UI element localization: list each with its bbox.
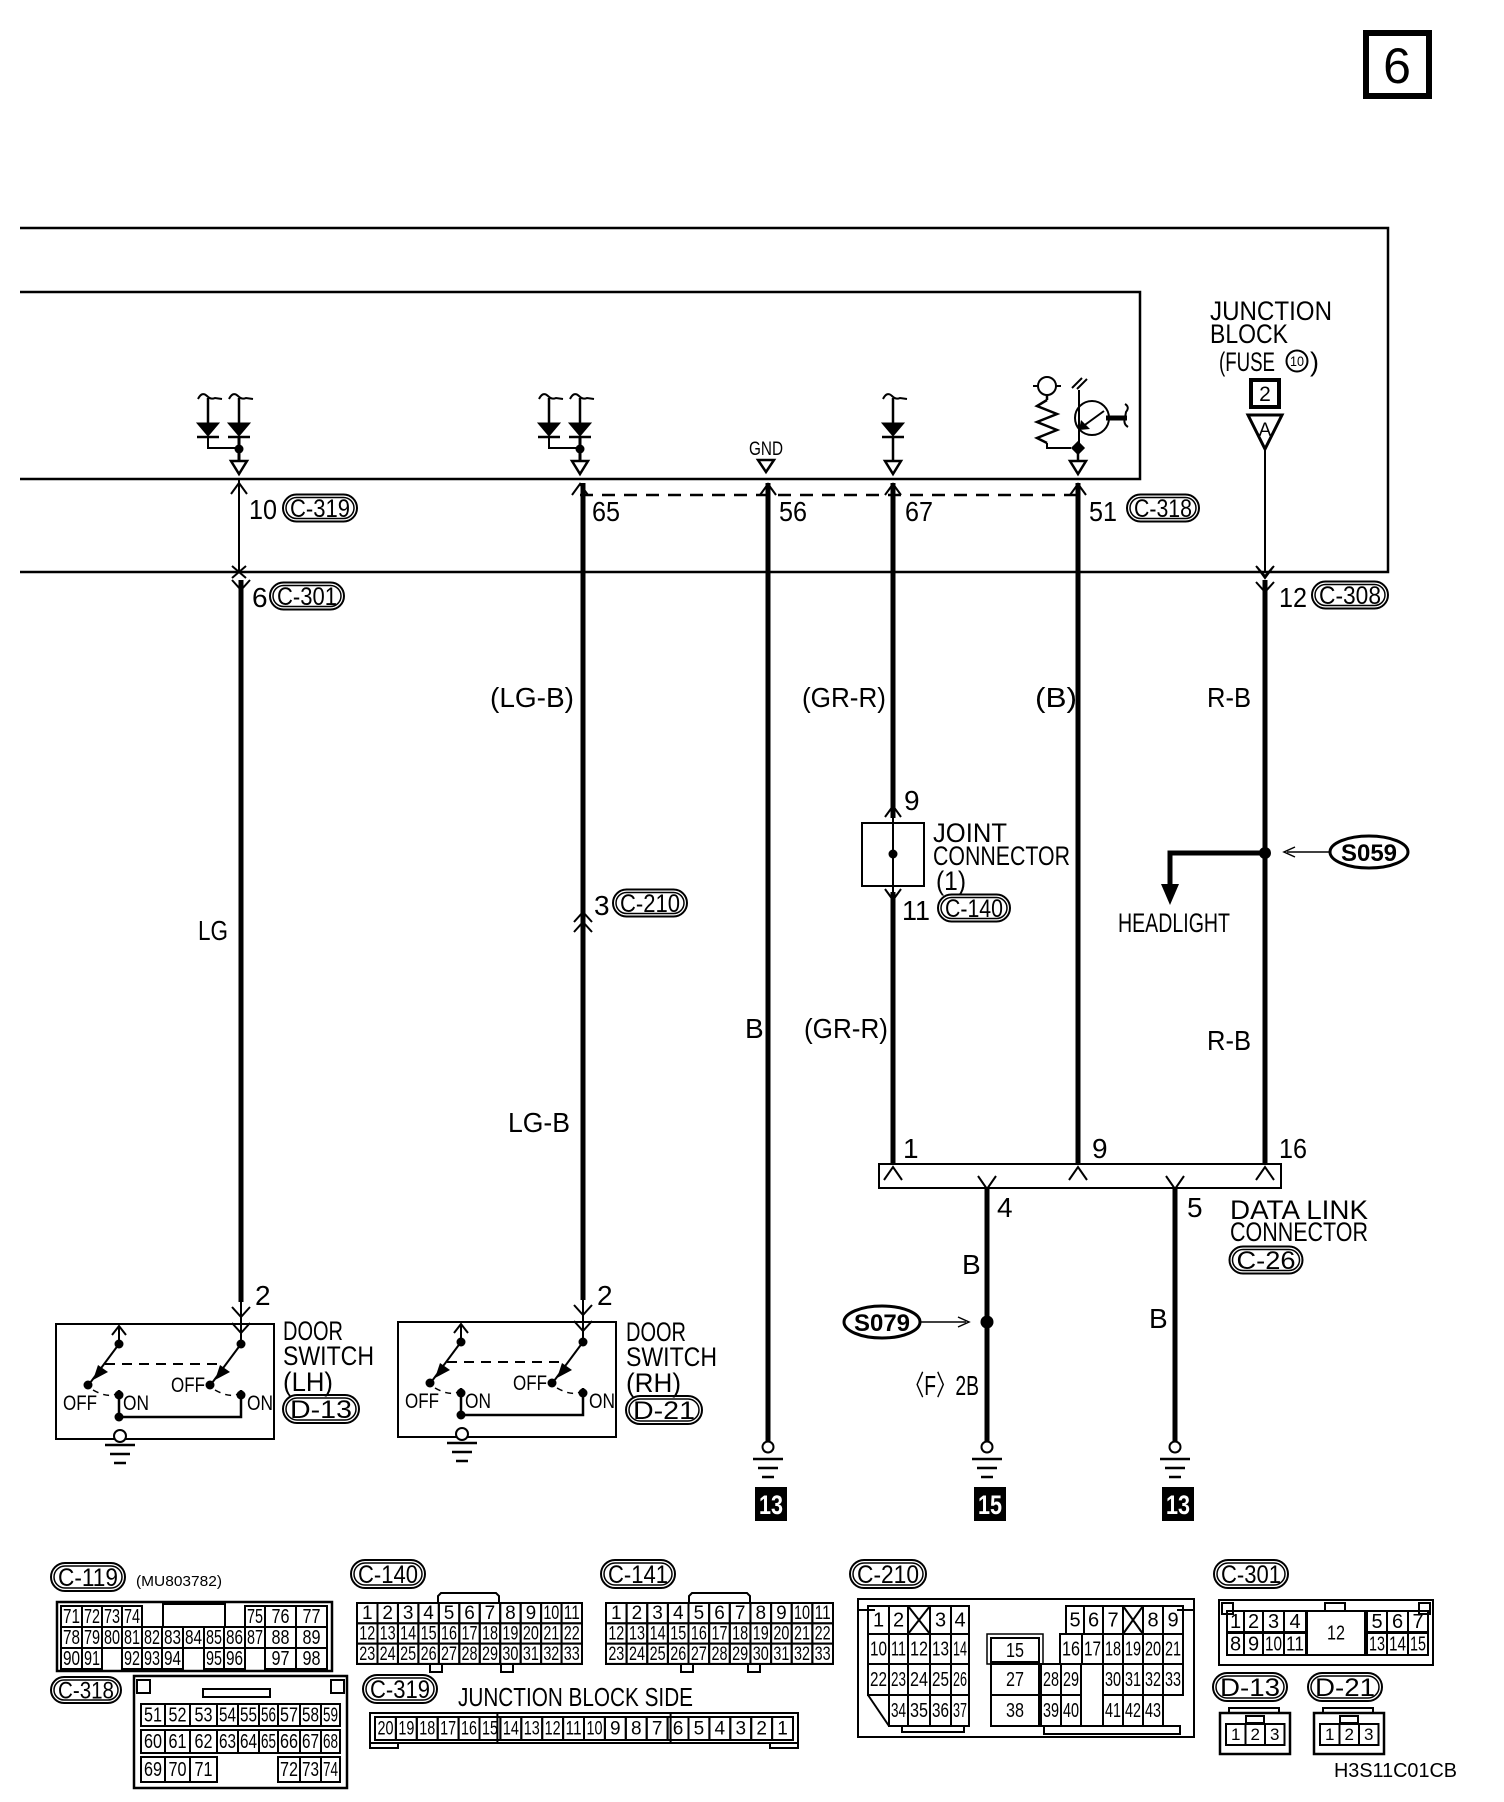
svg-text:87: 87 — [247, 1627, 263, 1649]
svg-text:2: 2 — [756, 1719, 767, 1740]
svg-text:14: 14 — [503, 1719, 519, 1740]
svg-text:9: 9 — [904, 785, 920, 816]
svg-text:C-319: C-319 — [290, 495, 350, 523]
svg-text:26: 26 — [953, 1669, 967, 1691]
connector C-319 strip — [370, 1713, 798, 1748]
svg-text:25: 25 — [650, 1644, 666, 1665]
svg-text:38: 38 — [1006, 1700, 1024, 1722]
svg-text:OFF: OFF — [63, 1392, 97, 1415]
svg-text:12: 12 — [1279, 582, 1307, 613]
transistor Q1 — [1072, 378, 1128, 448]
svg-text:23: 23 — [608, 1644, 624, 1665]
svg-text:2: 2 — [893, 1609, 904, 1631]
svg-text:58: 58 — [302, 1704, 319, 1726]
svg-text:31: 31 — [523, 1644, 539, 1665]
svg-text:19: 19 — [753, 1624, 769, 1645]
dashed connector line C-318 — [580, 494, 1078, 497]
svg-text:3: 3 — [403, 1603, 414, 1624]
svg-text:78: 78 — [63, 1627, 80, 1649]
svg-text:2: 2 — [255, 1280, 271, 1311]
svg-text:27: 27 — [1006, 1669, 1024, 1691]
svg-text:61: 61 — [169, 1731, 187, 1753]
resistor R1 — [1033, 377, 1071, 448]
svg-text:5: 5 — [694, 1603, 705, 1624]
svg-text:6: 6 — [714, 1603, 725, 1624]
svg-text:HEADLIGHT: HEADLIGHT — [1118, 908, 1230, 938]
svg-text:29: 29 — [732, 1644, 748, 1665]
svg-text:2: 2 — [632, 1603, 643, 1624]
svg-text:10: 10 — [1265, 1633, 1282, 1655]
svg-text:LG: LG — [198, 915, 228, 946]
svg-text:18: 18 — [482, 1624, 498, 1645]
svg-text:5: 5 — [1187, 1192, 1203, 1223]
svg-text:85: 85 — [206, 1627, 222, 1649]
pin 6 (C-301) — [232, 580, 344, 613]
svg-text:8: 8 — [1147, 1609, 1158, 1631]
svg-text:70: 70 — [169, 1759, 187, 1781]
svg-text:D-13: D-13 — [1220, 1674, 1280, 1702]
svg-text:14: 14 — [650, 1624, 666, 1645]
svg-text:35: 35 — [910, 1700, 928, 1722]
svg-text:CONNECTOR: CONNECTOR — [1230, 1217, 1368, 1247]
svg-text:C-210: C-210 — [857, 1561, 919, 1589]
svg-text:15: 15 — [1006, 1640, 1024, 1662]
svg-text:BLOCK: BLOCK — [1210, 319, 1288, 349]
svg-text:12: 12 — [910, 1638, 928, 1660]
svg-text:B: B — [1149, 1303, 1168, 1334]
ground G1 — [753, 1442, 783, 1478]
ground ref 13 — [755, 1487, 787, 1521]
svg-text:77: 77 — [303, 1606, 321, 1628]
svg-text:JUNCTION BLOCK SIDE: JUNCTION BLOCK SIDE — [458, 1682, 693, 1712]
svg-text:6: 6 — [1383, 38, 1411, 94]
svg-text:(FUSE: (FUSE — [1219, 347, 1275, 377]
wire GR-R: pin67 to DLC pin1 — [891, 483, 896, 818]
svg-text:67: 67 — [302, 1731, 319, 1753]
svg-text:ON: ON — [247, 1392, 273, 1415]
svg-text:18: 18 — [1105, 1638, 1121, 1660]
svg-text:32: 32 — [543, 1644, 559, 1665]
svg-text:74: 74 — [323, 1759, 338, 1781]
svg-text:11: 11 — [902, 895, 930, 926]
svg-text:24: 24 — [629, 1644, 645, 1665]
svg-text:5: 5 — [694, 1719, 705, 1740]
svg-text:18: 18 — [419, 1719, 435, 1740]
svg-text:16: 16 — [1062, 1638, 1080, 1660]
svg-text:13: 13 — [524, 1719, 540, 1740]
svg-text:2: 2 — [1259, 383, 1271, 406]
joint connector pin 11 (C-140) — [885, 889, 1010, 926]
svg-text:5: 5 — [1069, 1609, 1080, 1631]
svg-text:73: 73 — [302, 1759, 319, 1781]
svg-text:28: 28 — [712, 1644, 728, 1665]
svg-text:7: 7 — [485, 1603, 496, 1624]
svg-text:15: 15 — [482, 1719, 498, 1740]
svg-text:19: 19 — [398, 1719, 414, 1740]
svg-text:68: 68 — [323, 1731, 338, 1753]
svg-text:65: 65 — [261, 1731, 276, 1753]
svg-text:1: 1 — [777, 1719, 788, 1740]
svg-text:21: 21 — [794, 1624, 810, 1645]
svg-text:6: 6 — [252, 582, 268, 613]
svg-text:15: 15 — [670, 1624, 686, 1645]
pin 10 (C-319) — [231, 479, 357, 578]
splice S079 — [844, 1306, 969, 1338]
svg-text:80: 80 — [104, 1627, 120, 1649]
svg-text:C-318: C-318 — [58, 1677, 114, 1704]
svg-text:59: 59 — [323, 1704, 338, 1726]
svg-text:C-26: C-26 — [1237, 1247, 1296, 1275]
svg-text:(MU803782): (MU803782) — [136, 1573, 222, 1590]
svg-text:21: 21 — [1165, 1638, 1181, 1660]
svg-text:9: 9 — [526, 1603, 537, 1624]
svg-text:17: 17 — [462, 1624, 478, 1645]
svg-text:83: 83 — [164, 1627, 181, 1649]
svg-text:22: 22 — [815, 1624, 831, 1645]
svg-text:91: 91 — [84, 1648, 100, 1670]
svg-text:15: 15 — [978, 1490, 1002, 1520]
svg-text:2: 2 — [382, 1603, 393, 1624]
svg-text:13: 13 — [932, 1638, 949, 1660]
svg-text:ON: ON — [123, 1392, 149, 1415]
svg-text:13: 13 — [380, 1624, 396, 1645]
diode pair D2 — [538, 394, 594, 474]
svg-text:43: 43 — [1145, 1700, 1161, 1722]
svg-text:10: 10 — [1290, 353, 1304, 369]
svg-text:19: 19 — [502, 1624, 518, 1645]
svg-text:74: 74 — [124, 1606, 140, 1628]
svg-text:41: 41 — [1105, 1700, 1121, 1722]
svg-text:18: 18 — [732, 1624, 748, 1645]
svg-text:11: 11 — [566, 1719, 582, 1740]
svg-text:C-319: C-319 — [370, 1676, 430, 1704]
svg-text:R-B: R-B — [1207, 1025, 1251, 1056]
svg-text:7: 7 — [735, 1603, 746, 1624]
connector C-119 body — [57, 1602, 332, 1671]
svg-text:14: 14 — [953, 1638, 967, 1660]
svg-text:16: 16 — [1279, 1133, 1307, 1164]
connector table C-119 header — [51, 1563, 222, 1592]
wire B: DLC pin4 to ground — [985, 1188, 990, 1442]
svg-text:〈F〉2B: 〈F〉2B — [905, 1370, 979, 1401]
svg-text:96: 96 — [226, 1648, 243, 1670]
svg-text:42: 42 — [1125, 1700, 1141, 1722]
svg-text:86: 86 — [226, 1627, 243, 1649]
svg-text:73: 73 — [104, 1606, 120, 1628]
node S059 junction — [1259, 847, 1271, 859]
svg-text:3: 3 — [1268, 1611, 1279, 1633]
triangle A (power feed) — [1248, 415, 1282, 449]
svg-text:34: 34 — [891, 1700, 906, 1722]
svg-text:H3S11C01CB: H3S11C01CB — [1334, 1760, 1457, 1782]
svg-text:30: 30 — [502, 1644, 518, 1665]
svg-text:3: 3 — [935, 1609, 946, 1631]
svg-text:ON: ON — [589, 1390, 615, 1413]
door switch LH — [56, 1324, 274, 1463]
svg-text:23: 23 — [891, 1669, 906, 1691]
connector table C-141 — [601, 1560, 675, 1588]
svg-text:11: 11 — [815, 1603, 831, 1624]
svg-text:1: 1 — [362, 1603, 373, 1624]
diode pair D1 (interior lamps driver) — [197, 394, 253, 474]
svg-text:9: 9 — [1248, 1633, 1259, 1655]
svg-text:24: 24 — [380, 1644, 396, 1665]
svg-text:33: 33 — [564, 1644, 580, 1665]
svg-text:53: 53 — [195, 1704, 213, 1726]
svg-text:26: 26 — [670, 1644, 686, 1665]
wire LG-B: pin65 to door switch RH — [581, 483, 586, 1300]
svg-text:81: 81 — [124, 1627, 140, 1649]
svg-text:1: 1 — [903, 1133, 919, 1164]
connector C-318 body — [134, 1676, 347, 1788]
svg-text:22: 22 — [564, 1624, 580, 1645]
svg-text:28: 28 — [462, 1644, 478, 1665]
svg-text:93: 93 — [144, 1648, 160, 1670]
svg-text:98: 98 — [303, 1648, 321, 1670]
svg-text:11: 11 — [891, 1638, 906, 1660]
svg-text:OFF: OFF — [171, 1374, 205, 1397]
svg-text:12: 12 — [608, 1624, 624, 1645]
pin 51 (C-318) — [1070, 484, 1199, 527]
svg-text:13: 13 — [1166, 1490, 1190, 1520]
svg-text:2: 2 — [597, 1280, 613, 1311]
connector 3 (C-210) crossing — [574, 890, 687, 933]
joint connector pin 9 — [885, 785, 920, 817]
svg-text:89: 89 — [303, 1627, 321, 1649]
svg-text:13: 13 — [759, 1490, 783, 1520]
svg-text:4: 4 — [954, 1609, 965, 1631]
svg-text:14: 14 — [400, 1624, 416, 1645]
svg-text:51: 51 — [144, 1704, 162, 1726]
branch to headlight — [1161, 853, 1265, 905]
door switch LH pin 2 — [232, 1280, 271, 1344]
svg-text:84: 84 — [185, 1627, 202, 1649]
svg-text:92: 92 — [124, 1648, 140, 1670]
svg-text:D-21: D-21 — [633, 1397, 695, 1425]
pin 65 — [572, 484, 620, 527]
svg-text:3: 3 — [735, 1719, 746, 1740]
svg-text:36: 36 — [932, 1700, 949, 1722]
svg-text:): ) — [1310, 347, 1319, 377]
svg-text:32: 32 — [1145, 1669, 1161, 1691]
door switch RH pin 2 — [574, 1280, 613, 1343]
svg-text:R-B: R-B — [1207, 682, 1251, 713]
svg-text:69: 69 — [144, 1759, 162, 1781]
data link connector box — [879, 1164, 1281, 1188]
svg-text:10: 10 — [794, 1603, 810, 1624]
connector table C-318 header — [51, 1677, 121, 1703]
svg-text:16: 16 — [441, 1624, 457, 1645]
svg-text:62: 62 — [195, 1731, 213, 1753]
joint connector (1) box — [862, 823, 924, 886]
svg-text:75: 75 — [247, 1606, 263, 1628]
svg-text:17: 17 — [440, 1719, 456, 1740]
svg-text:C-141: C-141 — [608, 1561, 668, 1589]
svg-text:LG-B: LG-B — [508, 1107, 570, 1138]
svg-text:82: 82 — [144, 1627, 160, 1649]
svg-text:9: 9 — [1167, 1609, 1178, 1631]
node: R1/Q1 junction — [1070, 441, 1086, 474]
ground G2 — [982, 1442, 993, 1453]
svg-text:63: 63 — [219, 1731, 236, 1753]
svg-text:20: 20 — [1145, 1638, 1161, 1660]
connector table C-210 — [850, 1560, 926, 1588]
svg-text:33: 33 — [1165, 1669, 1181, 1691]
svg-text:12: 12 — [1327, 1622, 1345, 1644]
svg-text:12: 12 — [545, 1719, 561, 1740]
svg-text:C-318: C-318 — [1134, 495, 1192, 523]
svg-text:57: 57 — [280, 1704, 298, 1726]
svg-text:22: 22 — [870, 1669, 887, 1691]
diode D3 — [882, 394, 907, 474]
svg-text:32: 32 — [794, 1644, 810, 1665]
svg-text:16: 16 — [691, 1624, 707, 1645]
svg-text:24: 24 — [910, 1669, 928, 1691]
connector table C-140 — [351, 1560, 425, 1588]
svg-text:D-13: D-13 — [290, 1396, 352, 1424]
svg-text:33: 33 — [815, 1644, 831, 1665]
svg-text:1: 1 — [873, 1609, 884, 1631]
svg-text:14: 14 — [1389, 1633, 1406, 1655]
svg-text:27: 27 — [691, 1644, 707, 1665]
svg-text:C-301: C-301 — [277, 583, 337, 611]
svg-text:4: 4 — [715, 1719, 726, 1740]
svg-text:64: 64 — [240, 1731, 257, 1753]
svg-text:26: 26 — [421, 1644, 437, 1665]
svg-text:10: 10 — [543, 1603, 559, 1624]
svg-text:67: 67 — [905, 496, 933, 527]
DLC pin labels 1 9 16 — [903, 1133, 1307, 1164]
svg-text:3: 3 — [1270, 1725, 1279, 1744]
svg-text:C-119: C-119 — [58, 1564, 118, 1592]
svg-text:ON: ON — [465, 1390, 491, 1413]
wire (B): pin51 to DLC pin9 — [1076, 483, 1081, 1164]
page index box 6 — [1366, 33, 1429, 96]
svg-text:9: 9 — [776, 1603, 787, 1624]
pin 12 (C-308) — [1256, 566, 1388, 613]
ETACS inner unit box — [20, 292, 1140, 479]
svg-text:1: 1 — [611, 1603, 622, 1624]
svg-text:12: 12 — [359, 1624, 375, 1645]
svg-text:9: 9 — [610, 1719, 621, 1740]
svg-text:1: 1 — [1325, 1725, 1334, 1744]
joint connector label — [933, 818, 1070, 896]
svg-text:10: 10 — [249, 494, 277, 525]
wire LG: pin6 to door switch LH — [239, 580, 244, 1302]
svg-text:30: 30 — [753, 1644, 769, 1665]
svg-text:C-308: C-308 — [1319, 582, 1381, 610]
svg-text:2: 2 — [1345, 1725, 1354, 1744]
wire: triangle A to outer box bottom — [1257, 449, 1273, 578]
svg-text:C-140: C-140 — [945, 895, 1003, 923]
svg-text:8: 8 — [631, 1719, 642, 1740]
svg-text:3: 3 — [652, 1603, 663, 1624]
ground ref 13 (right) — [1162, 1487, 1194, 1521]
svg-text:(RH): (RH) — [626, 1368, 681, 1398]
svg-text:71: 71 — [63, 1606, 80, 1628]
svg-text:15: 15 — [421, 1624, 437, 1645]
svg-text:2: 2 — [1251, 1725, 1260, 1744]
svg-text:6: 6 — [1392, 1611, 1403, 1633]
svg-text:31: 31 — [773, 1644, 789, 1665]
svg-text:6: 6 — [464, 1603, 475, 1624]
svg-text:72: 72 — [84, 1606, 100, 1628]
svg-text:56: 56 — [261, 1704, 276, 1726]
door switch RH labels (D-21) — [626, 1317, 717, 1425]
svg-text:97: 97 — [272, 1648, 290, 1670]
svg-text:40: 40 — [1063, 1700, 1079, 1722]
svg-text:9: 9 — [1092, 1133, 1108, 1164]
svg-text:(GR-R): (GR-R) — [804, 1013, 888, 1044]
ground ref 15 — [974, 1487, 1006, 1521]
svg-text:30: 30 — [1105, 1669, 1121, 1691]
svg-text:15: 15 — [1410, 1633, 1426, 1655]
svg-text:6: 6 — [1088, 1609, 1099, 1631]
svg-text:8: 8 — [1230, 1633, 1241, 1655]
GND internal pin — [749, 439, 783, 472]
svg-text:13: 13 — [629, 1624, 645, 1645]
connector D-13 header — [1213, 1673, 1287, 1701]
svg-text:29: 29 — [1063, 1669, 1079, 1691]
svg-text:6: 6 — [673, 1719, 684, 1740]
svg-text:65: 65 — [592, 496, 620, 527]
svg-text:4: 4 — [1289, 1611, 1300, 1633]
svg-text:20: 20 — [773, 1624, 789, 1645]
door switch RH — [398, 1322, 616, 1461]
splice S059 — [1284, 836, 1408, 868]
svg-text:4: 4 — [997, 1192, 1013, 1223]
svg-text:B: B — [962, 1249, 981, 1280]
svg-text:66: 66 — [280, 1731, 298, 1753]
svg-text:7: 7 — [1107, 1609, 1118, 1631]
svg-text:4: 4 — [423, 1603, 434, 1624]
svg-text:52: 52 — [169, 1704, 187, 1726]
svg-text:(1): (1) — [936, 866, 966, 896]
svg-text:72: 72 — [280, 1759, 298, 1781]
svg-text:28: 28 — [1043, 1669, 1059, 1691]
svg-text:39: 39 — [1043, 1700, 1059, 1722]
svg-text:3: 3 — [594, 890, 610, 921]
svg-text:2: 2 — [1248, 1611, 1259, 1633]
svg-text:5: 5 — [444, 1603, 455, 1624]
svg-text:10: 10 — [870, 1638, 887, 1660]
svg-text:20: 20 — [377, 1719, 393, 1740]
fuse 10 label — [1219, 347, 1319, 377]
svg-text:88: 88 — [272, 1627, 290, 1649]
connector D-13 body — [1220, 1708, 1290, 1754]
svg-text:56: 56 — [779, 496, 807, 527]
wire B: DLC pin5 to ground — [1173, 1188, 1178, 1442]
node S079 junction — [981, 1316, 994, 1329]
svg-text:25: 25 — [932, 1669, 949, 1691]
door switch LH labels (D-13) — [283, 1316, 374, 1424]
svg-text:90: 90 — [63, 1648, 80, 1670]
svg-text:7: 7 — [652, 1719, 663, 1740]
svg-text:37: 37 — [953, 1700, 967, 1722]
svg-text:55: 55 — [240, 1704, 257, 1726]
svg-text:1: 1 — [1231, 1725, 1240, 1744]
pin 67 — [885, 484, 933, 527]
svg-text:60: 60 — [144, 1731, 162, 1753]
svg-text:(LG-B): (LG-B) — [490, 682, 574, 713]
svg-text:25: 25 — [400, 1644, 416, 1665]
svg-text:D-21: D-21 — [1315, 1674, 1375, 1702]
svg-text:8: 8 — [505, 1603, 516, 1624]
svg-text:21: 21 — [543, 1624, 559, 1645]
svg-text:17: 17 — [712, 1624, 728, 1645]
svg-text:C-210: C-210 — [620, 890, 680, 918]
fuse box 2 — [1251, 380, 1279, 407]
